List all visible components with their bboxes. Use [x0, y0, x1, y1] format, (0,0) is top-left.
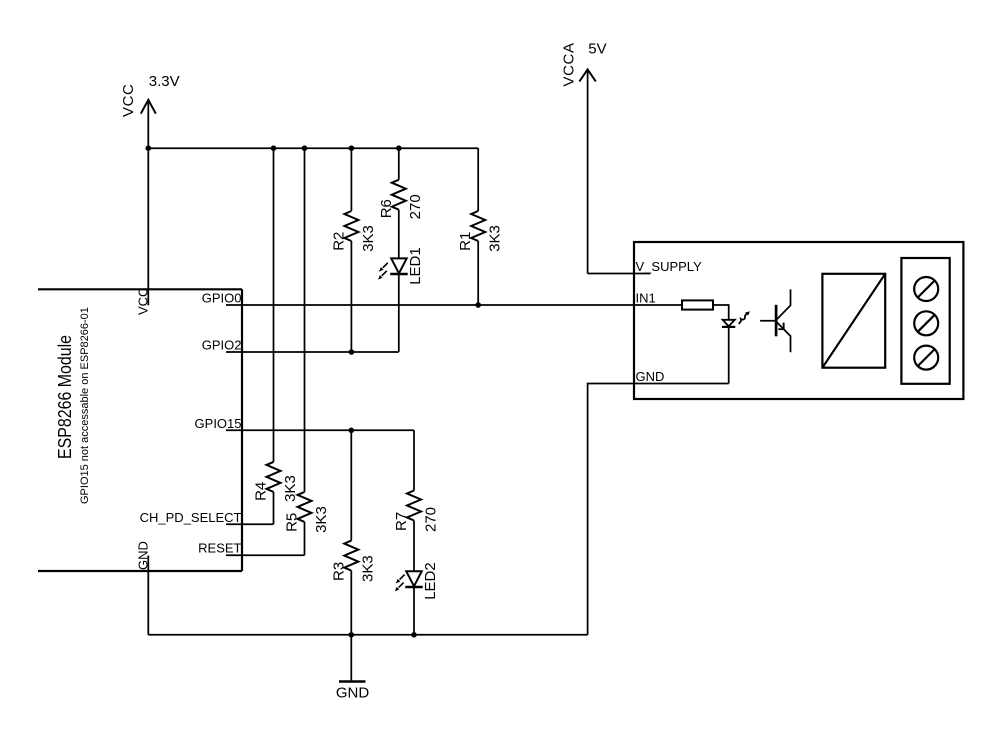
wire LED1 to GPIO2	[398, 274, 400, 352]
svg-text:270: 270	[407, 194, 424, 219]
junction bus/R4	[271, 145, 277, 151]
svg-text:3K3: 3K3	[360, 225, 377, 252]
resistor R4 3K3	[267, 148, 281, 524]
svg-text:VCC: VCC	[136, 288, 151, 315]
svg-text:R4: R4	[253, 482, 270, 501]
wire VCCA to V_SUPPLY	[588, 273, 651, 275]
junction GPIO2/R2	[349, 349, 355, 355]
junction at VCC arrow	[146, 145, 152, 151]
relay module box	[634, 242, 963, 399]
power flag VCC (3.3V)	[141, 100, 156, 148]
junction bus/R5	[302, 145, 308, 151]
svg-text:R1: R1	[457, 232, 474, 251]
svg-text:GND: GND	[636, 369, 665, 384]
wire GPIO0 to IN1	[226, 304, 682, 306]
opto LED	[722, 320, 735, 327]
svg-text:ESP8266 Module: ESP8266 Module	[55, 335, 75, 459]
svg-text:LED1: LED1	[407, 247, 424, 285]
svg-text:R5: R5	[284, 513, 301, 532]
power flag VCCA (5V)	[579, 69, 595, 273]
svg-text:270: 270	[422, 507, 439, 532]
svg-text:V_SUPPLY: V_SUPPLY	[636, 259, 703, 274]
resistor R7 270	[407, 430, 421, 570]
svg-text:R6: R6	[378, 199, 395, 218]
wire resistor to opto LED	[713, 305, 729, 320]
resistor R2 3K3	[344, 148, 358, 352]
svg-text:R3: R3	[330, 562, 347, 581]
junction bus/R6	[396, 145, 402, 151]
junction GND/R3	[349, 632, 355, 638]
terminal block	[901, 258, 949, 384]
svg-text:GPIO2: GPIO2	[202, 338, 242, 353]
resistor relay input (box style)	[682, 300, 713, 309]
svg-text:GPIO15 not accessable on ESP82: GPIO15 not accessable on ESP8266-01	[79, 307, 91, 504]
wire relay GND	[588, 384, 729, 635]
svg-text:R7: R7	[393, 512, 410, 531]
svg-text:GND: GND	[336, 684, 370, 701]
svg-text:3K3: 3K3	[360, 555, 377, 582]
svg-text:VCC: VCC	[120, 84, 137, 117]
opto light arrow	[739, 311, 750, 324]
svg-text:CH_PD_SELECT: CH_PD_SELECT	[140, 510, 242, 525]
svg-text:GPIO15: GPIO15	[195, 416, 242, 431]
svg-text:VCCA: VCCA	[561, 42, 578, 86]
LED LED2	[395, 571, 423, 591]
svg-text:3.3V: 3.3V	[149, 73, 180, 90]
svg-text:3K3: 3K3	[313, 506, 330, 533]
svg-text:LED2: LED2	[422, 562, 439, 600]
svg-text:RESET: RESET	[198, 541, 241, 556]
svg-text:3K3: 3K3	[282, 475, 299, 502]
wire opto LED to GND	[728, 327, 730, 384]
junction R1/GPIO0	[475, 302, 481, 308]
wire LED2 to GND rail	[413, 587, 415, 635]
ESP8266 module outline	[38, 289, 242, 571]
svg-text:GPIO0: GPIO0	[202, 291, 242, 306]
wire GND rail	[148, 634, 587, 636]
junction GND/LED2	[411, 632, 417, 638]
LED LED1	[378, 258, 408, 279]
relay coil	[822, 274, 885, 368]
resistor R5 3K3	[298, 148, 312, 555]
opto transistor	[760, 289, 790, 352]
resistor R3 3K3	[344, 430, 358, 635]
wire VCC pin drop	[147, 148, 149, 305]
wire CH_PD_SELECT	[226, 523, 274, 525]
wire RESET	[226, 554, 305, 556]
wire GPIO15	[226, 429, 414, 431]
ground symbol	[339, 635, 366, 682]
junction GPIO15/R3	[349, 428, 355, 434]
junction bus/R2	[349, 145, 355, 151]
wire GPIO2	[226, 351, 399, 353]
resistor R1 3K3	[471, 148, 485, 305]
svg-text:R2: R2	[330, 232, 347, 251]
resistor R6 270	[392, 148, 406, 258]
svg-text:5V: 5V	[588, 41, 606, 58]
wire ESP GND pin	[147, 556, 149, 635]
svg-text:IN1: IN1	[636, 290, 656, 305]
svg-text:3K3: 3K3	[487, 225, 504, 252]
wire VCC bus 3.3V	[148, 147, 478, 149]
